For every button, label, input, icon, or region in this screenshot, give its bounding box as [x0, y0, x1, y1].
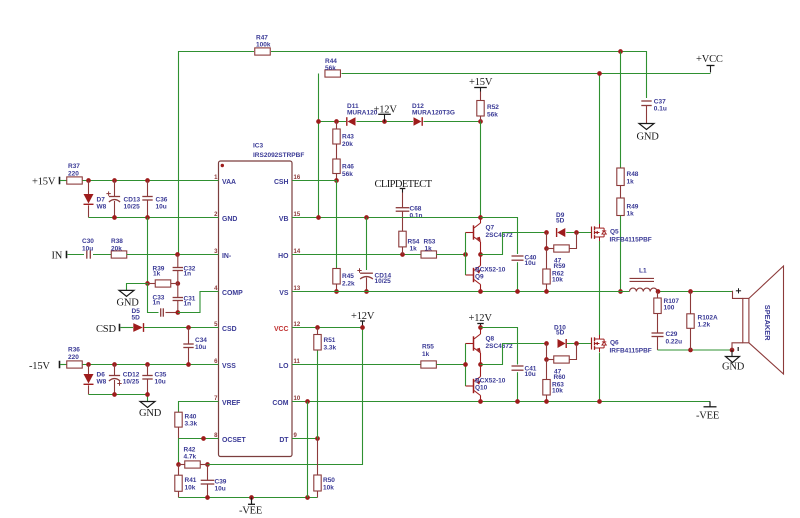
- svg-text:1.2k: 1.2k: [698, 322, 711, 329]
- svg-text:5D: 5D: [556, 218, 565, 225]
- svg-text:220: 220: [68, 171, 79, 178]
- svg-text:100k: 100k: [256, 42, 271, 49]
- svg-text:R41: R41: [185, 477, 197, 484]
- svg-text:10k: 10k: [185, 485, 196, 492]
- svg-text:10k: 10k: [552, 277, 563, 284]
- svg-text:VB: VB: [279, 216, 289, 223]
- svg-text:DT: DT: [279, 437, 289, 444]
- svg-text:GND: GND: [117, 298, 140, 309]
- svg-text:10k: 10k: [552, 388, 563, 395]
- svg-text:1n: 1n: [184, 301, 192, 308]
- svg-text:1k: 1k: [425, 246, 433, 253]
- svg-text:56k: 56k: [487, 112, 498, 119]
- svg-text:IRS2092STRPBF: IRS2092STRPBF: [253, 152, 304, 159]
- svg-text:R53: R53: [424, 239, 436, 246]
- svg-text:GND: GND: [637, 132, 660, 143]
- svg-text:220: 220: [68, 354, 79, 361]
- svg-text:COM: COM: [272, 400, 288, 407]
- svg-text:R59: R59: [554, 263, 566, 270]
- svg-text:10k: 10k: [323, 485, 334, 492]
- svg-text:VAA: VAA: [222, 179, 236, 186]
- svg-text:R50: R50: [323, 477, 335, 484]
- svg-text:R54: R54: [408, 239, 420, 246]
- svg-text:C30: C30: [82, 238, 94, 245]
- svg-text:D7: D7: [97, 197, 106, 204]
- svg-text:VSS: VSS: [222, 363, 236, 370]
- svg-text:3.3k: 3.3k: [324, 345, 337, 352]
- svg-text:R40: R40: [185, 414, 197, 421]
- svg-text:1k: 1k: [410, 246, 418, 253]
- svg-text:VREF: VREF: [222, 400, 240, 407]
- svg-text:R55: R55: [422, 344, 434, 351]
- svg-text:1k: 1k: [422, 351, 430, 358]
- svg-text:1k: 1k: [627, 179, 635, 186]
- svg-text:10u: 10u: [215, 486, 226, 493]
- svg-text:R45: R45: [342, 273, 354, 280]
- svg-text:-VEE: -VEE: [696, 411, 719, 422]
- svg-text:C36: C36: [156, 197, 168, 204]
- svg-text:CSH: CSH: [274, 179, 289, 186]
- svg-text:R60: R60: [554, 374, 566, 381]
- svg-text:56k: 56k: [325, 65, 336, 72]
- svg-text:0.1u: 0.1u: [654, 106, 667, 113]
- svg-text:R48: R48: [627, 171, 639, 178]
- svg-text:COMP: COMP: [222, 290, 243, 297]
- svg-text:Q9: Q9: [475, 274, 484, 281]
- svg-text:1k: 1k: [627, 211, 635, 218]
- svg-text:56k: 56k: [342, 171, 353, 178]
- svg-text:+12V: +12V: [469, 313, 493, 324]
- svg-text:10u: 10u: [155, 379, 166, 386]
- svg-text:R44: R44: [325, 58, 337, 65]
- svg-text:VCC: VCC: [274, 326, 289, 333]
- svg-text:BCX52-10: BCX52-10: [475, 378, 506, 385]
- svg-text:CSD: CSD: [222, 326, 237, 333]
- svg-text:10u: 10u: [525, 260, 536, 267]
- svg-text:R36: R36: [68, 347, 80, 354]
- svg-text:0.1n: 0.1n: [410, 213, 423, 220]
- svg-text:0.22u: 0.22u: [666, 339, 683, 346]
- svg-text:R47: R47: [256, 35, 268, 42]
- svg-text:BCX52-10: BCX52-10: [475, 267, 506, 274]
- svg-text:3.3k: 3.3k: [185, 421, 198, 428]
- svg-text:W8: W8: [97, 379, 107, 386]
- svg-text:CD13: CD13: [124, 197, 141, 204]
- svg-text:-VEE: -VEE: [239, 506, 262, 517]
- svg-text:20k: 20k: [111, 246, 122, 253]
- svg-text:MURA120T3G: MURA120T3G: [412, 110, 455, 117]
- svg-text:Q5: Q5: [610, 229, 619, 236]
- svg-text:R46: R46: [342, 164, 354, 171]
- svg-text:10/25: 10/25: [124, 204, 141, 211]
- svg-text:W8: W8: [97, 204, 107, 211]
- svg-text:CD12: CD12: [123, 372, 140, 379]
- svg-text:2.2k: 2.2k: [342, 281, 355, 288]
- svg-text:IC3: IC3: [253, 143, 264, 150]
- svg-text:IRFB4115PBF: IRFB4115PBF: [610, 348, 652, 355]
- svg-text:10u: 10u: [82, 246, 93, 253]
- svg-text:10u: 10u: [525, 371, 536, 378]
- svg-text:GND: GND: [222, 216, 237, 223]
- svg-text:+15V: +15V: [32, 177, 56, 188]
- svg-text:C37: C37: [654, 99, 666, 106]
- svg-text:SPEAKER: SPEAKER: [763, 305, 772, 341]
- svg-text:20k: 20k: [342, 141, 353, 148]
- svg-text:OCSET: OCSET: [222, 437, 247, 444]
- svg-text:1n: 1n: [153, 300, 161, 307]
- svg-text:10/25: 10/25: [123, 379, 140, 386]
- svg-text:10u: 10u: [195, 344, 206, 351]
- svg-text:+15V: +15V: [469, 77, 493, 88]
- svg-text:4.7k: 4.7k: [184, 454, 197, 461]
- svg-text:IN-: IN-: [222, 253, 232, 260]
- svg-text:CSD: CSD: [96, 324, 116, 335]
- svg-text:R102A: R102A: [698, 315, 719, 322]
- svg-text:10u: 10u: [156, 204, 167, 211]
- svg-text:GND: GND: [139, 408, 162, 419]
- svg-text:C34: C34: [195, 337, 207, 344]
- svg-text:1n: 1n: [184, 271, 192, 278]
- svg-text:HO: HO: [278, 253, 289, 260]
- svg-text:R51: R51: [324, 337, 336, 344]
- svg-text:C35: C35: [155, 372, 167, 379]
- svg-text:5D: 5D: [556, 330, 565, 337]
- svg-text:R38: R38: [111, 238, 123, 245]
- svg-text:L1: L1: [639, 268, 647, 275]
- svg-text:LO: LO: [279, 363, 289, 370]
- svg-text:R42: R42: [184, 447, 196, 454]
- svg-text:IN: IN: [52, 251, 63, 262]
- svg-text:R43: R43: [342, 134, 354, 141]
- svg-text:R49: R49: [627, 204, 639, 211]
- svg-text:GND: GND: [722, 361, 745, 372]
- svg-text:Q6: Q6: [610, 340, 619, 347]
- svg-text:1k: 1k: [153, 271, 161, 278]
- svg-text:R52: R52: [487, 104, 499, 111]
- svg-text:Q7: Q7: [486, 225, 495, 232]
- svg-text:Q8: Q8: [486, 336, 495, 343]
- svg-text:10/25: 10/25: [375, 278, 392, 285]
- svg-text:-15V: -15V: [29, 361, 50, 372]
- svg-text:C68: C68: [410, 206, 422, 213]
- svg-text:Q10: Q10: [475, 385, 488, 392]
- svg-text:IRFB4115PBF: IRFB4115PBF: [610, 237, 652, 244]
- svg-text:VS: VS: [279, 290, 289, 297]
- svg-text:C29: C29: [666, 331, 678, 338]
- svg-text:R37: R37: [68, 163, 80, 170]
- svg-text:D6: D6: [97, 372, 106, 379]
- svg-text:100: 100: [664, 305, 675, 312]
- svg-text:C39: C39: [215, 479, 227, 486]
- svg-text:+VCC: +VCC: [696, 54, 723, 65]
- svg-text:5D: 5D: [132, 315, 141, 322]
